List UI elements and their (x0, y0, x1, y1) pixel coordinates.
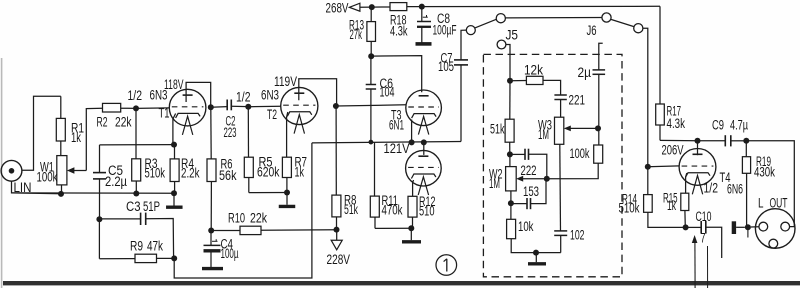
svg-text:1k: 1k (71, 130, 81, 145)
capacitor C2 (226, 100, 228, 111)
node tone ground (533, 250, 539, 256)
node W3 wiper / 100k (595, 125, 601, 131)
node SRPP left (409, 139, 415, 145)
node C8 top (419, 4, 425, 10)
svg-text:J5: J5 (506, 28, 519, 43)
wire W2 to 10k (510, 191, 512, 219)
output connector L OUT (755, 209, 795, 249)
node 228V (334, 227, 340, 233)
resistor R12 (408, 196, 417, 217)
svg-text:T2: T2 (267, 107, 277, 122)
svg-text:1/2: 1/2 (128, 88, 143, 103)
svg-text:6N3: 6N3 (261, 88, 279, 103)
triode T2 (1/2 6N3) (281, 87, 318, 124)
svg-text:1M: 1M (538, 127, 549, 142)
svg-text:1k: 1k (667, 198, 676, 213)
resistor 12k (510, 80, 526, 82)
capacitor C10 (686, 226, 702, 228)
svg-text:2.2µ: 2.2µ (105, 174, 127, 189)
switch J5 lower contact (497, 40, 506, 49)
svg-text:222: 222 (521, 163, 537, 178)
svg-text:T1: T1 (159, 106, 170, 121)
svg-text:153: 153 (523, 184, 539, 199)
capacitor 222 (510, 153, 525, 155)
wire R5 bottom to R7 bottom (249, 192, 287, 194)
wire node to T3 anode (371, 56, 422, 93)
svg-text:510: 510 (419, 203, 435, 218)
node T1 grid (133, 105, 139, 111)
node output ground (745, 224, 751, 230)
svg-text:119V: 119V (274, 74, 297, 89)
svg-text:470k: 470k (382, 203, 403, 218)
capacitor 102 (554, 230, 567, 232)
C8 polarity mark (423, 16, 428, 18)
capacitor C6 (370, 89, 372, 142)
capacitor 2µ (593, 69, 606, 71)
resistor R13 (370, 41, 372, 56)
svg-text:430k: 430k (754, 165, 775, 180)
node tone mid (544, 176, 550, 182)
node W1 bottom (58, 191, 64, 197)
resistor R11 (374, 143, 376, 196)
W2 wiper arrow (523, 178, 547, 180)
switch J6 upper contact (602, 13, 611, 22)
resistor R2 (103, 103, 121, 112)
svg-text:2.2k: 2.2k (181, 166, 200, 181)
node W2 top (507, 151, 513, 157)
svg-text:6N6: 6N6 (727, 182, 743, 197)
svg-text:L: L (758, 196, 764, 211)
wire to XLR left pin (751, 226, 759, 228)
svg-text:4.3k: 4.3k (390, 23, 408, 38)
input jack LIN (1, 160, 22, 181)
ground bar output (sideways) (732, 221, 736, 234)
node R13 top (369, 4, 375, 10)
svg-text:4.3k: 4.3k (667, 116, 686, 131)
ground symbol C4 (202, 267, 223, 270)
resistor R7 (282, 157, 291, 177)
potentiometer W2 (509, 154, 511, 166)
wire T2 anode to T3 grid (336, 105, 406, 106)
C4 polarity mark (212, 240, 218, 242)
resistor R8 (anode load to 228V) (335, 106, 337, 195)
svg-text:R2: R2 (97, 115, 108, 130)
svg-text:4.7µ: 4.7µ (730, 118, 748, 133)
node R5/R7 ground (284, 190, 290, 196)
svg-text:51k: 51k (344, 202, 358, 217)
wire R11 to R12 bottom (375, 227, 413, 229)
ground symbol stage2 (286, 193, 288, 205)
W3 bottom wire to 102 (559, 144, 562, 231)
svg-text:100µF: 100µF (433, 22, 457, 37)
resistor R17 (659, 6, 661, 104)
svg-text:56k: 56k (219, 168, 237, 183)
switch J6 lever (611, 19, 634, 26)
svg-text:C9: C9 (712, 118, 724, 133)
node R15/R14/C10 (683, 224, 689, 230)
ground symbol SRPP (410, 228, 412, 240)
T4 anode lead (697, 141, 699, 155)
resistor R14 (647, 167, 649, 195)
svg-text:47k: 47k (147, 239, 163, 254)
scan border left (1, 58, 3, 288)
svg-text:100k: 100k (37, 170, 58, 185)
node T4 anode (695, 138, 701, 144)
node C6 bottom (369, 140, 374, 145)
svg-text:10k: 10k (518, 219, 534, 234)
node T1 anode (208, 104, 214, 110)
triode T1 (1/2 6N3) (169, 89, 206, 126)
wire J6 common to T4 grid (643, 28, 648, 167)
node SRPP right (421, 139, 427, 145)
resistor R3 (135, 108, 137, 158)
W3 wiper arrow (570, 127, 598, 129)
triode T3 upper (6N1) (406, 90, 442, 126)
node R3 bottom (133, 191, 139, 197)
wire R17 to T4 anode (660, 139, 698, 141)
T3 lower cathode lead to R12 (412, 180, 415, 196)
svg-text:51P: 51P (143, 199, 160, 214)
node T2 anode (333, 103, 339, 109)
wire R2 to grid node (121, 107, 136, 109)
resistor 100k (594, 145, 603, 163)
svg-text:105: 105 (438, 59, 454, 74)
wire anode node to C2 (211, 106, 227, 109)
wire stub to lower channel (707, 246, 709, 288)
T3 upper cathode leg (411, 120, 413, 143)
node R4 bottom / ground (171, 190, 177, 196)
svg-text:12k: 12k (524, 63, 543, 78)
T3 lower anode lead (423, 142, 425, 155)
node R6/C4/R10 (208, 228, 214, 234)
annotation arrow 4.7µ (692, 235, 698, 243)
node T4 grid (645, 164, 651, 170)
ground rail wire (12, 192, 175, 194)
capacitor C8 electrolytic (421, 7, 423, 22)
svg-text:228V: 228V (327, 252, 351, 267)
T4 cathode lead (686, 173, 687, 193)
capacitor C3 (99, 218, 140, 220)
wire C9 node to output pin (746, 141, 794, 227)
switch J5 common (466, 26, 475, 35)
svg-text:C3: C3 (126, 199, 141, 214)
ground symbol C8 (416, 42, 432, 46)
resistor R15 (681, 193, 689, 210)
svg-text:104: 104 (380, 84, 395, 99)
svg-text:27k: 27k (350, 27, 363, 42)
svg-text:100k: 100k (570, 146, 590, 161)
switch J5 upper contact (496, 14, 505, 23)
wire J5 lower into box (506, 45, 510, 81)
T4 grid wire (648, 165, 680, 168)
svg-text:206V: 206V (662, 142, 684, 157)
bypass wire J5-J6 (505, 17, 601, 19)
capacitor C4 electrolytic (210, 231, 212, 246)
svg-text:6N1: 6N1 (389, 117, 404, 132)
wire grid node to T2 (248, 105, 281, 108)
svg-text:7: 7 (701, 231, 706, 246)
wire W1 wiper up to R2 (86, 108, 102, 170)
SRPP output wire 121V (312, 142, 461, 143)
svg-text:22k: 22k (250, 211, 267, 226)
svg-text:1k: 1k (295, 165, 305, 180)
svg-text:2µ: 2µ (578, 65, 592, 80)
node W2 bottom (508, 200, 514, 206)
capacitor 153 (511, 203, 527, 205)
capacitor C9 (698, 140, 726, 142)
potentiometer W1 (57, 156, 67, 185)
feedback bottom wire (174, 143, 312, 278)
resistor R9 (99, 258, 135, 260)
top rail wire (360, 6, 390, 8)
wire C5 node down to R9 (98, 219, 100, 258)
svg-text:100µ: 100µ (221, 246, 239, 261)
resistor R19 (745, 141, 747, 157)
svg-text:1/2: 1/2 (704, 181, 719, 196)
svg-text:51k: 51k (490, 122, 505, 137)
T1 cathode lead (173, 114, 176, 145)
svg-text:121V: 121V (384, 141, 410, 156)
resistor R4 (174, 145, 176, 159)
svg-text:1M: 1M (489, 176, 500, 191)
resistor 10k (507, 219, 516, 238)
svg-text:22k: 22k (115, 115, 132, 130)
switch J5 lever (475, 19, 496, 28)
scan border bottom (3, 281, 800, 285)
node T2 grid (245, 104, 251, 110)
wire grid node to T1 (136, 107, 170, 110)
resistor R5 (247, 107, 249, 158)
ground symbol main (173, 193, 175, 206)
resistor R1 (60, 96, 62, 118)
supply arrow 268V (349, 3, 360, 11)
node C9/R19 (743, 138, 749, 144)
node R11/R12 ground (408, 225, 414, 231)
wire J6 lower into box (599, 43, 603, 70)
W1 wiper arrow (74, 170, 86, 172)
switch J6 common (634, 24, 643, 33)
svg-text:118V: 118V (164, 77, 184, 92)
resistor R10 (211, 230, 240, 232)
triode T3 lower (6N1) (406, 150, 442, 186)
capacitor C7 (460, 65, 462, 142)
svg-text:223: 223 (224, 125, 237, 140)
svg-text:OUT: OUT (770, 196, 788, 211)
wire jack ground to bottom rail (12, 181, 62, 194)
T1 anode loop wire (186, 82, 211, 107)
node R13/C6 (368, 53, 374, 59)
svg-text:R9: R9 (130, 239, 143, 254)
node 12k/51k (507, 78, 513, 84)
svg-text:620k: 620k (257, 165, 280, 180)
svg-text:C10: C10 (696, 209, 712, 224)
svg-text:R10: R10 (228, 211, 245, 226)
figure number 1 (436, 255, 457, 276)
svg-text:J6: J6 (587, 23, 597, 38)
svg-text:510k: 510k (619, 200, 640, 215)
capacitor 221 (554, 94, 566, 96)
svg-text:268V: 268V (326, 1, 349, 16)
svg-text:102: 102 (570, 228, 585, 243)
node R9/C3/feedback (171, 255, 177, 261)
svg-text:221: 221 (569, 93, 586, 108)
triode T4 (1/2 6N6) (679, 149, 716, 186)
node T1 cathode (171, 142, 177, 148)
resistor R18 (390, 3, 407, 11)
node C5/C3 (96, 216, 102, 222)
T2 anode loop wire (299, 79, 337, 106)
wire jack to W1 wiper column (22, 96, 61, 170)
capacitor C5 (99, 145, 101, 173)
svg-text:1/2: 1/2 (236, 90, 251, 105)
resistor R6 (210, 107, 212, 159)
ground symbol tone (535, 253, 537, 263)
potentiometer W3 (555, 117, 564, 144)
resistor 51k (509, 81, 511, 120)
dashed network box (483, 54, 622, 276)
supply arrow 228V (336, 230, 338, 241)
cathode node wire to C5 (100, 144, 175, 146)
svg-text:510k: 510k (145, 166, 166, 181)
T2 cathode lead to R7 (287, 112, 288, 157)
